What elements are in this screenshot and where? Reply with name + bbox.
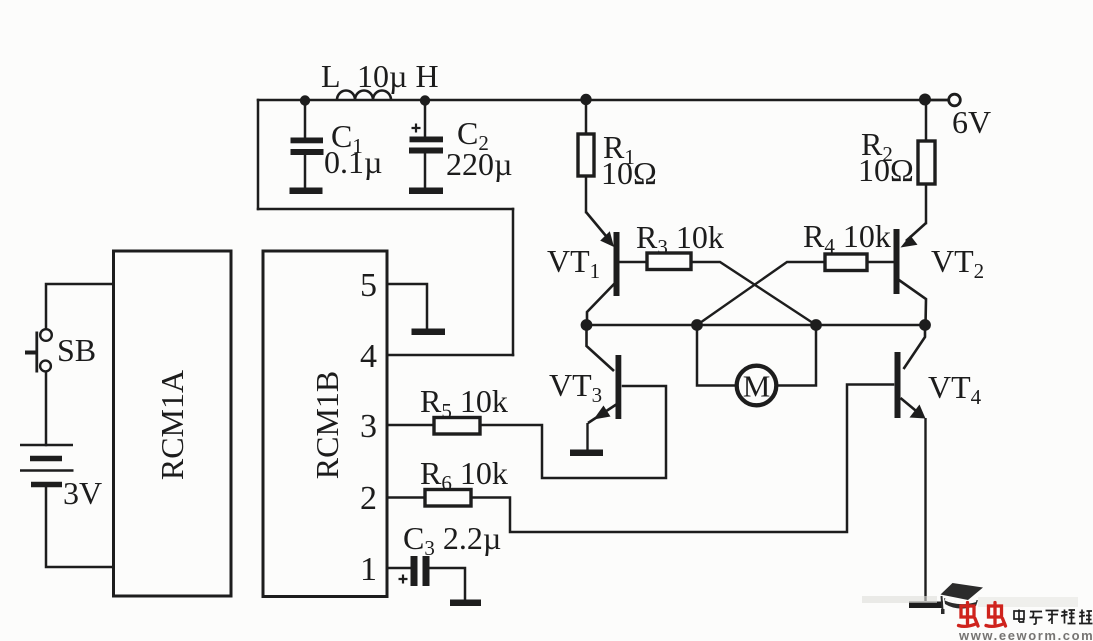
svg-text:VT1: VT1 <box>547 243 600 283</box>
wire pin 1 to C3 <box>388 567 410 570</box>
resistor R1 body <box>578 134 594 176</box>
wire top power rail <box>258 99 949 102</box>
wire R4 to node diagonal <box>697 262 825 325</box>
wire R1 bottom to VT1 emitter <box>585 176 588 212</box>
capacitor C3 polarity plus <box>399 575 408 584</box>
watermark ghost smudge <box>862 596 937 603</box>
capacitor C1 plates <box>291 138 324 144</box>
svg-text:C3 2.2µ: C3 2.2µ <box>403 520 501 560</box>
ground at VT4 emitter <box>909 602 943 609</box>
watermark chongchong char 2 <box>986 603 1006 627</box>
node on bus at VT2 collector <box>919 319 931 331</box>
wire R1 top <box>585 100 588 134</box>
node at 6V branch <box>919 94 931 106</box>
resistor R4 body <box>825 254 867 271</box>
node on bus at motor left <box>691 319 703 331</box>
ground at C3 <box>450 600 481 607</box>
svg-text:2: 2 <box>360 480 377 517</box>
svg-text:RCM1A: RCM1A <box>154 370 190 480</box>
ground at pin 5 <box>412 329 446 336</box>
wire filter bottom rail <box>258 208 513 211</box>
wire pin 5 to ground <box>388 284 427 329</box>
svg-text:3V: 3V <box>63 475 102 511</box>
node on bus at motor right <box>810 319 822 331</box>
inductor L coil <box>337 91 391 101</box>
node at R1 top <box>580 94 591 105</box>
capacitor C2 polarity plus <box>412 124 421 133</box>
IC RCM1B box <box>263 251 387 597</box>
svg-text:R5 10k: R5 10k <box>420 383 508 423</box>
wire R2 top <box>925 100 928 141</box>
resistor R5 body <box>434 418 480 435</box>
svg-text:220µ: 220µ <box>446 146 512 182</box>
resistor R2 body <box>918 141 935 184</box>
capacitor C1 bottom bar <box>290 188 323 195</box>
svg-text:VT3: VT3 <box>549 367 602 407</box>
wire motor right branch <box>777 325 817 386</box>
wire 6V terminal stub <box>925 99 949 102</box>
wire C2 stem <box>424 100 427 137</box>
node at C1 top <box>300 95 310 105</box>
wire battery bottom to RCM1A <box>46 485 113 567</box>
capacitor C2 plates <box>410 137 444 143</box>
svg-text:R6 10k: R6 10k <box>420 455 508 495</box>
wire pin 2 to R6 <box>388 496 425 499</box>
wire motor left branch <box>697 325 737 386</box>
transistor VT4 <box>895 325 926 601</box>
wire pin 3 to R5 <box>388 424 434 427</box>
wire C1 stem <box>304 100 307 138</box>
resistor R3 body <box>647 253 691 270</box>
wire R2 bottom to VT2 emitter <box>925 183 928 223</box>
wire node line between collectors <box>586 324 925 327</box>
svg-text:www.eeworm.com: www.eeworm.com <box>958 628 1093 641</box>
wire battery top to RCM1A <box>46 284 113 329</box>
terminal 6V open circle <box>949 94 961 106</box>
svg-text:SB: SB <box>57 332 96 368</box>
svg-text:R4 10k: R4 10k <box>803 218 891 258</box>
capacitor C3 plates <box>411 556 418 586</box>
node on bus at VT1 collector <box>581 319 593 331</box>
battery 3V <box>20 445 74 485</box>
svg-text:RCM1B: RCM1B <box>309 371 345 479</box>
transistor VT3 <box>587 325 622 450</box>
motor M circle <box>737 366 777 406</box>
svg-text:10Ω: 10Ω <box>601 155 657 191</box>
IC RCM1A box <box>114 251 232 596</box>
transistor VT1 <box>586 212 647 325</box>
svg-text:L: L <box>321 58 341 94</box>
pushbutton SB <box>25 329 52 372</box>
wire drop to pin 4 <box>512 209 515 355</box>
capacitor C2 bottom bar <box>409 188 443 195</box>
svg-text:4: 4 <box>360 338 377 375</box>
svg-text:6V: 6V <box>952 104 991 140</box>
svg-text:10µ H: 10µ H <box>357 58 439 94</box>
svg-text:1: 1 <box>360 551 377 588</box>
svg-text:5: 5 <box>360 267 377 304</box>
svg-text:R3 10k: R3 10k <box>636 219 724 259</box>
svg-text:VT4: VT4 <box>928 369 982 409</box>
wire C3 to ground <box>430 568 465 600</box>
resistor R6 body <box>425 490 471 507</box>
wire R5 to VT3 base route <box>480 386 666 478</box>
wire switch to battery <box>45 372 48 446</box>
wire R3 to node diagonal <box>691 262 816 325</box>
transistor VT2 <box>867 223 926 325</box>
node at C2 top <box>420 95 430 105</box>
watermark chongchong char 1 <box>959 603 979 627</box>
wire R6 to VT4 base route <box>471 385 893 533</box>
svg-text:VT2: VT2 <box>931 243 984 283</box>
wire left drop of filter loop <box>257 100 260 209</box>
svg-text:M: M <box>743 369 771 404</box>
svg-text:3: 3 <box>360 408 377 445</box>
svg-text:0.1µ: 0.1µ <box>324 144 382 180</box>
wire pin 4 to drop <box>388 354 513 357</box>
watermark text dianzi xiazaizhan <box>1014 610 1093 625</box>
svg-text:10Ω: 10Ω <box>858 152 914 188</box>
watermark graduation cap icon <box>941 583 984 614</box>
ground at VT3 emitter <box>570 450 603 457</box>
